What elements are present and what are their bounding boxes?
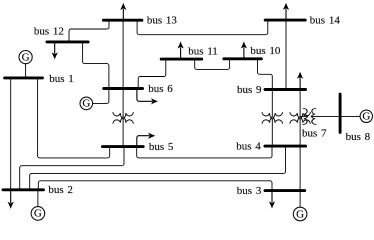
load arrowhead bus 2 (down)	[8, 202, 14, 209]
wire 10-11	[195, 59, 230, 70]
wire 3-4	[299, 146, 301, 191]
wire G6 stub	[93, 89, 109, 104]
svg-text:G: G	[82, 98, 90, 110]
load arrowhead bus 3 (down)	[269, 201, 275, 208]
wire 1-5	[38, 78, 110, 158]
transformer 4-9 (A)	[262, 112, 282, 124]
svg-text:bus 14: bus 14	[310, 15, 341, 27]
svg-text:bus 10: bus 10	[250, 45, 281, 57]
wire load stub bus 5	[137, 136, 150, 147]
wire load shaft bus 12	[54, 42, 56, 54]
wire bus8 to G8	[342, 115, 360, 117]
wire 9-14	[285, 20, 287, 89]
wire load shaft bus 3	[271, 191, 273, 203]
wire 4-5	[137, 146, 272, 158]
load arrowhead bus 11 (up)	[177, 41, 183, 48]
load arrowhead bus 13 (up)	[120, 3, 126, 10]
wire G2 stub	[37, 190, 39, 207]
wire 2-5	[20, 147, 124, 190]
bus 2 bar	[3, 188, 44, 191]
wire load shaft bus 2	[10, 190, 12, 203]
wire load shaft bus 11	[180, 47, 182, 59]
svg-text:bus 11: bus 11	[188, 45, 218, 57]
wire 9-4 through transformer A	[271, 90, 273, 147]
bus 14 bar	[265, 19, 305, 22]
wire 12-13	[69, 20, 109, 42]
svg-text:G: G	[296, 208, 304, 220]
generator G2 circle	[31, 207, 45, 221]
wire 2-4	[30, 146, 286, 190]
wire node7 to transformer 7-8	[300, 115, 308, 117]
bus 8 bar (vertical)	[339, 94, 342, 132]
wire load shaft bus 13	[122, 9, 124, 20]
svg-text:G: G	[22, 51, 30, 63]
bus 9 bar	[265, 88, 306, 91]
svg-text:bus 13: bus 13	[147, 15, 178, 27]
load arrowhead bus 5 (right)	[148, 133, 155, 139]
wire load shaft bus 9	[299, 78, 301, 90]
load arrowhead bus 6 (right)	[151, 98, 158, 104]
wire 6-13	[122, 20, 124, 88]
wire 9-7-4 through transformer B	[299, 90, 301, 147]
svg-text:bus 1: bus 1	[49, 73, 74, 85]
wire 1-2	[10, 78, 12, 190]
transformer 7-8 (horizontal)	[303, 108, 317, 124]
wire 12-6	[83, 42, 109, 89]
bus 4 bar	[265, 145, 306, 148]
bus 12 bar	[47, 40, 88, 43]
svg-text:G: G	[34, 208, 42, 220]
bus 6 bar	[104, 87, 143, 90]
svg-text:bus 6: bus 6	[148, 83, 173, 95]
generator G8 circle	[360, 110, 372, 122]
svg-text:bus 7: bus 7	[302, 128, 327, 140]
wire 7-8	[311, 115, 338, 117]
generator G6 circle	[80, 97, 93, 110]
wire load stub bus 6	[137, 89, 152, 102]
bus 5 bar	[103, 145, 144, 148]
bus 10 bar	[224, 57, 262, 60]
svg-text:bus 2: bus 2	[48, 184, 73, 196]
bus 1 bar	[5, 76, 43, 79]
load arrowhead bus 12 (down)	[52, 52, 58, 59]
load arrowhead bus 10 (up)	[241, 41, 247, 48]
wire G1 stub	[25, 64, 27, 78]
svg-text:G: G	[362, 111, 370, 123]
wire 13-14	[137, 20, 268, 35]
svg-text:bus 8: bus 8	[346, 131, 371, 143]
svg-text:bus 3: bus 3	[237, 185, 262, 197]
generator G3 circle	[293, 207, 307, 221]
wire 6-11	[138, 59, 166, 88]
bus 13 bar	[103, 19, 141, 22]
svg-text:bus 5: bus 5	[149, 141, 174, 153]
svg-text:bus 12: bus 12	[34, 25, 64, 37]
load arrowhead bus 14 (up)	[283, 3, 289, 10]
generator G1 circle	[19, 51, 32, 64]
bus 3 bar	[265, 189, 305, 192]
bus 11 bar	[161, 58, 202, 61]
svg-text:bus 4: bus 4	[236, 141, 261, 153]
wire 9-10	[258, 59, 273, 90]
svg-text:bus 9: bus 9	[237, 84, 262, 96]
load arrowhead bus 9 (up)	[297, 72, 303, 79]
transformer 4-7 (B)	[290, 112, 310, 124]
wire 5-6 through transformer	[122, 89, 124, 147]
transformer 5-6	[113, 112, 133, 124]
wire 2-3	[38, 181, 272, 191]
wire G3 stub	[299, 191, 301, 208]
wire load shaft bus 14	[285, 9, 287, 20]
wire load shaft bus 10	[243, 47, 245, 59]
